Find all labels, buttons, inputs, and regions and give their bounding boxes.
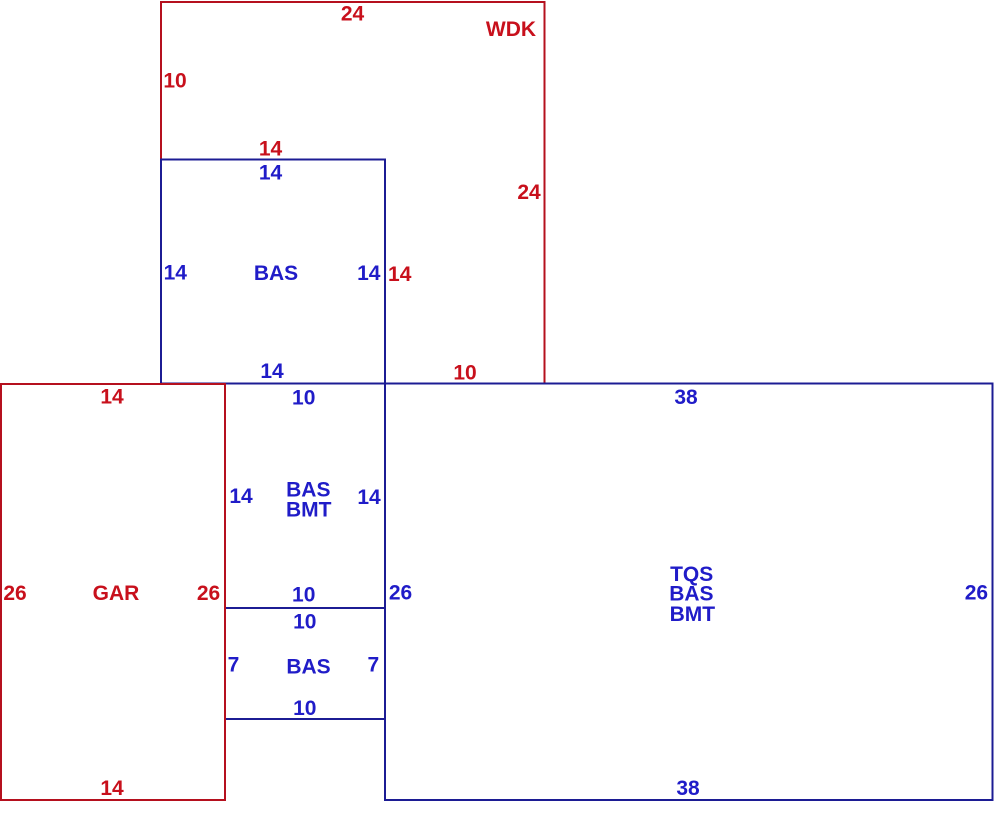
svg-text:14: 14	[388, 263, 412, 286]
svg-text:14: 14	[164, 262, 188, 285]
svg-text:24: 24	[517, 181, 541, 204]
svg-text:14: 14	[357, 486, 381, 509]
svg-text:BAS: BAS	[254, 262, 298, 285]
svg-text:26: 26	[965, 582, 988, 605]
svg-text:WDK: WDK	[486, 18, 536, 41]
svg-text:GAR: GAR	[93, 582, 140, 605]
svg-text:26: 26	[197, 582, 220, 605]
svg-text:10: 10	[293, 697, 316, 720]
svg-text:14: 14	[259, 162, 283, 185]
TQS BAS BMT rectangle	[385, 384, 993, 801]
BAS rectangle (first floor)	[161, 160, 385, 384]
svg-text:14: 14	[100, 386, 124, 409]
BAS small rectangle	[225, 608, 385, 719]
svg-text:10: 10	[292, 387, 315, 410]
svg-text:BMT: BMT	[670, 603, 716, 626]
svg-text:14: 14	[100, 777, 124, 800]
svg-text:BMT: BMT	[286, 499, 332, 522]
svg-text:14: 14	[229, 485, 253, 508]
svg-text:10: 10	[292, 584, 315, 607]
svg-text:38: 38	[676, 777, 700, 800]
svg-text:24: 24	[341, 3, 365, 26]
svg-text:26: 26	[389, 582, 412, 605]
svg-text:38: 38	[674, 386, 698, 409]
svg-text:10: 10	[453, 362, 476, 385]
WDK wood deck outline (L-shaped polygon)	[161, 2, 545, 384]
svg-text:10: 10	[163, 70, 186, 93]
BAS BMT rectangle	[225, 384, 385, 609]
svg-text:14: 14	[259, 138, 283, 161]
svg-text:14: 14	[260, 360, 284, 383]
svg-text:7: 7	[228, 654, 240, 677]
GAR rectangle (garage)	[1, 384, 225, 800]
svg-text:14: 14	[357, 262, 381, 285]
svg-text:10: 10	[293, 611, 316, 634]
svg-text:7: 7	[367, 654, 379, 677]
svg-text:BAS: BAS	[286, 656, 330, 679]
svg-text:26: 26	[3, 582, 26, 605]
